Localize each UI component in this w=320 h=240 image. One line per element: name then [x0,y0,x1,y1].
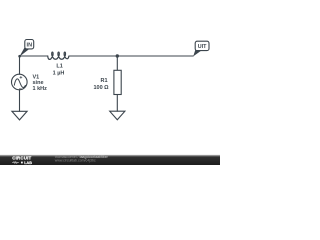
svg-text:www.circuitlab.com/c4j3bc: www.circuitlab.com/c4j3bc [55,159,96,163]
svg-text:100 Ω: 100 Ω [93,85,109,91]
svg-text:L1: L1 [56,64,62,70]
svg-text:CIRCUIT: CIRCUIT [12,156,31,161]
svg-text:LAB: LAB [24,161,32,165]
svg-text:1 µH: 1 µH [53,70,65,76]
svg-text:UIT: UIT [198,44,207,50]
svg-text:IN: IN [27,42,33,48]
svg-text:R1: R1 [100,78,107,84]
svg-text:1 kHz: 1 kHz [33,86,48,92]
